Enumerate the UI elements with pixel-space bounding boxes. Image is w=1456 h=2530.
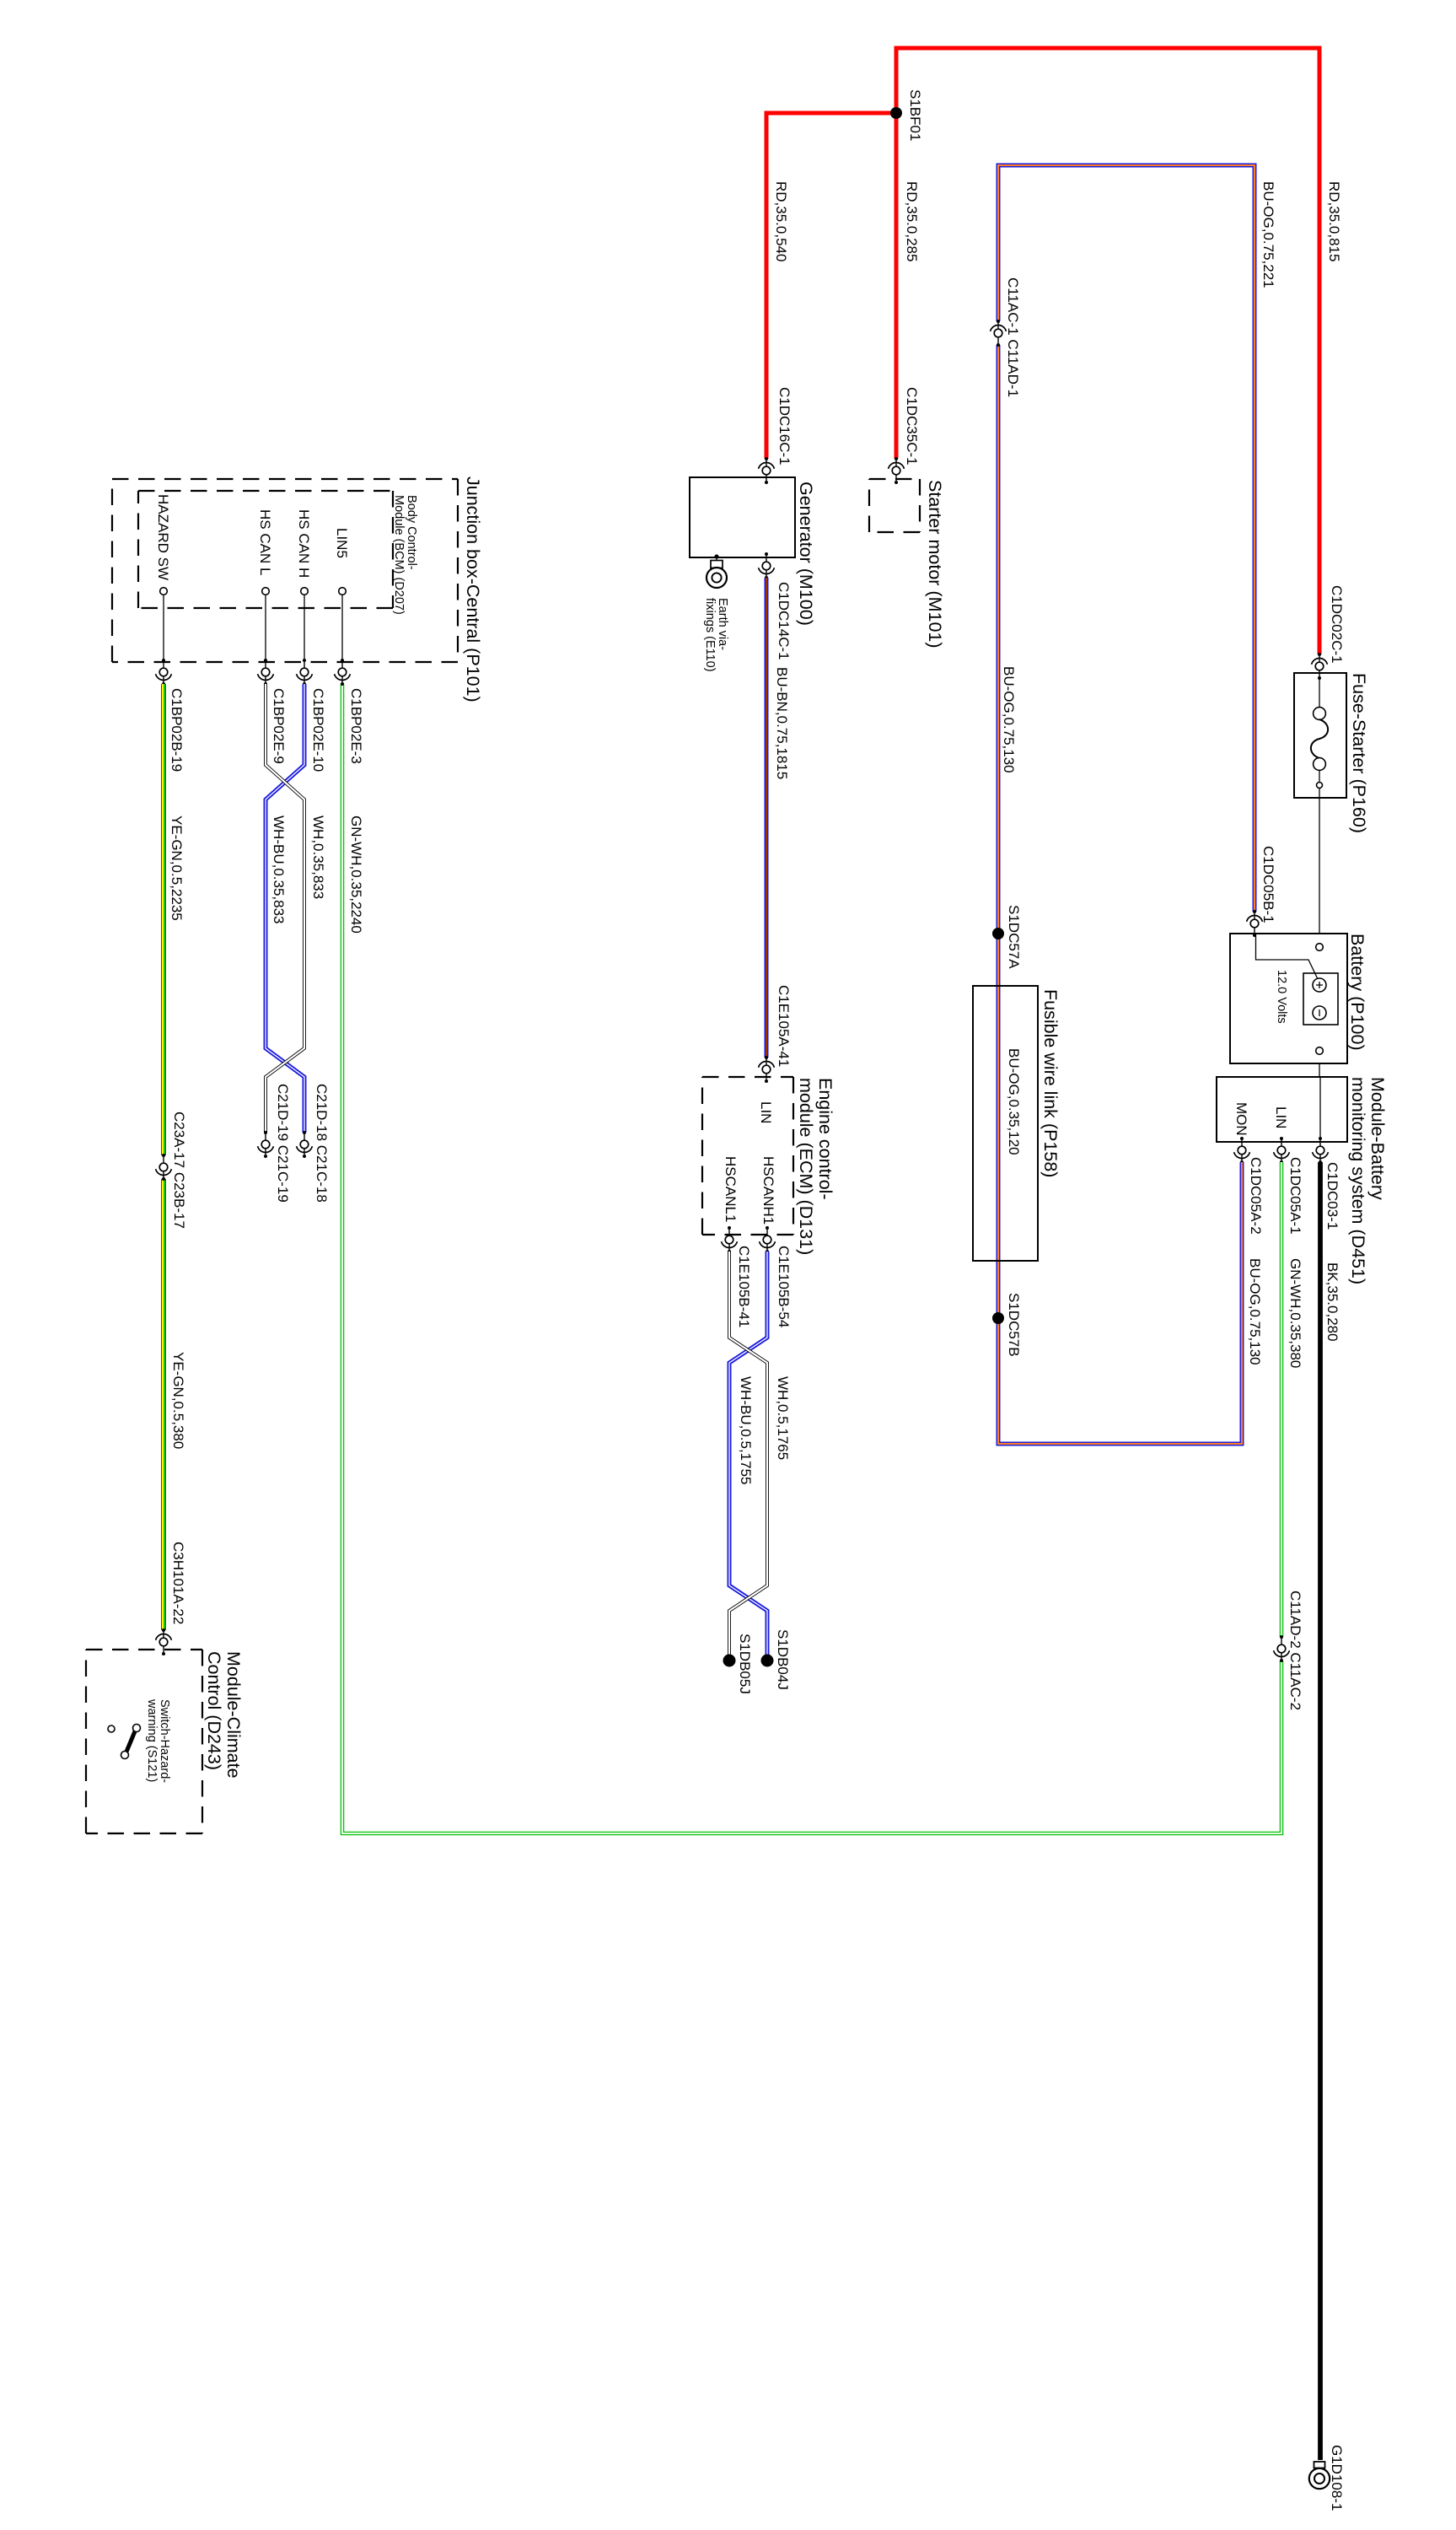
svg-text:BU-OG,0.35,120: BU-OG,0.35,120 [1006, 1048, 1022, 1155]
svg-text:WH-BU,0.35,833: WH-BU,0.35,833 [271, 816, 287, 924]
svg-text:S1DB04J: S1DB04J [775, 1629, 791, 1690]
svg-text:C1DC05B-1: C1DC05B-1 [1260, 846, 1276, 923]
svg-text:C1BP02B-19: C1BP02B-19 [169, 688, 185, 772]
svg-text:C1DC05A-2: C1DC05A-2 [1248, 1157, 1264, 1235]
switch-hazard-warning S121 [108, 1698, 171, 1783]
svg-text:fixings (E110): fixings (E110) [703, 598, 717, 672]
battery P100 [1230, 934, 1367, 1077]
connector C23A-17 C23B-17 [156, 1112, 187, 1229]
svg-text:Module-Battery: Module-Battery [1367, 1077, 1388, 1200]
svg-text:S1DB05J: S1DB05J [737, 1634, 753, 1694]
svg-text:Body Control-: Body Control- [405, 495, 418, 570]
svg-text:YE-GN,0.5,380: YE-GN,0.5,380 [170, 1352, 186, 1449]
node S1DB05J splice [723, 1634, 754, 1694]
junction box-central P101 dashed box [112, 476, 483, 702]
svg-text:G1D108-1: G1D108-1 [1329, 2445, 1345, 2511]
connector C11AC-1 C11AD-1 [991, 277, 1021, 397]
svg-text:RD,35.0,815: RD,35.0,815 [1326, 181, 1342, 261]
pin LIN5 [334, 528, 350, 660]
svg-text:C1DC03-1: C1DC03-1 [1324, 1162, 1340, 1230]
svg-text:BU-OG,0.75,130: BU-OG,0.75,130 [1001, 666, 1017, 773]
svg-text:HSCANH1: HSCANH1 [760, 1156, 776, 1225]
svg-text:C1E105B-41: C1E105B-41 [736, 1246, 752, 1327]
svg-text:C1BP02E-10: C1BP02E-10 [310, 688, 326, 772]
svg-text:Starter motor (M101): Starter motor (M101) [925, 480, 945, 649]
connector C1DC02C-1 [1312, 585, 1345, 680]
svg-text:Module (BCM) (D207): Module (BCM) (D207) [392, 495, 406, 615]
pin C1DC05A-2 [1234, 1137, 1264, 1235]
svg-text:C1DC35C-1: C1DC35C-1 [904, 387, 920, 466]
svg-text:monitoring system (D451): monitoring system (D451) [1348, 1077, 1368, 1284]
module-climate control D243 dashed box [86, 1650, 244, 1833]
wire BU-BN,0.75,1815 generator to ECM [766, 578, 790, 1058]
svg-text:Switch-Hazard-: Switch-Hazard- [158, 1699, 171, 1783]
pin C1DC03-1 [1313, 1137, 1340, 1230]
wire WH-BU,0.5,1755 HSCAN high twisted [729, 1252, 767, 1655]
ground G1D108-1 [1309, 2445, 1345, 2511]
fuse F Fuse-Starter P160 [1294, 673, 1369, 934]
svg-text:C1E105B-54: C1E105B-54 [776, 1246, 792, 1327]
connector C3H101A-22 [156, 1542, 186, 1655]
svg-text:GN-WH,0.35,2240: GN-WH,0.35,2240 [348, 816, 364, 934]
connector C21D-18 C21C-18 [297, 1084, 330, 1203]
connector C1BP02B-19 [156, 659, 185, 772]
svg-text:warning (S121): warning (S121) [145, 1698, 158, 1782]
svg-text:Earth via-: Earth via- [716, 598, 729, 650]
wire BU-OG,0.75 from MON pin via loop to battery C1DC05B-1 [998, 165, 1276, 1444]
svg-text:HAZARD SW: HAZARD SW [155, 494, 171, 580]
connector C1DC16C-1 [759, 387, 792, 484]
svg-text:Generator (M100): Generator (M100) [796, 482, 816, 626]
starter motor M101 dashed box [869, 479, 945, 649]
svg-text:Engine control-: Engine control- [815, 1078, 835, 1200]
svg-text:Fuse-Starter (P160): Fuse-Starter (P160) [1349, 673, 1369, 833]
svg-text:GN-WH,0.35,380: GN-WH,0.35,380 [1287, 1258, 1303, 1368]
generator M100 box [690, 477, 816, 626]
svg-text:Fusible wire link (P158): Fusible wire link (P158) [1040, 989, 1061, 1177]
svg-text:12.0 Volts: 12.0 Volts [1275, 970, 1288, 1024]
wire GN-WH,0.35,380 loop from LIN pin to junction box [342, 684, 1303, 1833]
module-battery monitoring system D451 box [1217, 1077, 1388, 1284]
svg-text:YE-GN,0.5,2235: YE-GN,0.5,2235 [169, 816, 185, 921]
svg-text:C3H101A-22: C3H101A-22 [170, 1542, 186, 1624]
svg-text:S1DC57B: S1DC57B [1006, 1293, 1022, 1357]
svg-text:BU-OG,0.75,221: BU-OG,0.75,221 [1260, 181, 1276, 288]
pin HS CAN L [257, 509, 273, 660]
connector C1DC35C-1 [889, 387, 920, 484]
earth via fixings E110 [703, 554, 729, 671]
pin C1DC05A-1 [1274, 1137, 1303, 1235]
pin HSCANH1 C1E105B-54 [760, 1226, 792, 1327]
wire WH,0.5,1765 HSCAN low twisted [729, 1252, 791, 1655]
svg-text:BK,35.0,280: BK,35.0,280 [1324, 1262, 1340, 1342]
connector C11AD-2 C11AC-2 [1274, 1591, 1303, 1710]
connector C1BP02E-10 [297, 659, 326, 772]
svg-text:MON: MON [1233, 1102, 1249, 1136]
node S1DB04J splice [761, 1629, 792, 1690]
svg-text:HS CAN L: HS CAN L [257, 509, 273, 575]
connector C1BP02E-3 [335, 659, 364, 764]
svg-text:C21D-19 C21C-19: C21D-19 C21C-19 [275, 1084, 291, 1203]
connector C1DC05B-1 [1247, 846, 1276, 937]
wire RD battery feed: C1DC02C-1 to S1BF01 to starter and generator [766, 48, 1319, 654]
pin HS CAN H [296, 509, 312, 660]
svg-text:WH-BU,0.5,1755: WH-BU,0.5,1755 [738, 1376, 754, 1485]
wire YE-GN,0.5,2235 hazard switch line [164, 684, 186, 1630]
svg-text:C11AC-1 C11AD-1: C11AC-1 C11AD-1 [1005, 277, 1021, 397]
svg-text:HSCANL1: HSCANL1 [723, 1156, 739, 1222]
svg-text:Module-Climate: Module-Climate [223, 1651, 244, 1779]
connector C1BP02E-9 [258, 659, 287, 764]
svg-text:S1BF01: S1BF01 [907, 89, 923, 141]
svg-text:Battery (P100): Battery (P100) [1347, 934, 1367, 1051]
wire GN-WH,0.35,2240 from C1BP02E-3 down the long loop [348, 816, 364, 934]
svg-text:Junction box-Central (P101): Junction box-Central (P101) [463, 476, 483, 702]
svg-text:C1BP02E-9: C1BP02E-9 [271, 688, 287, 764]
wire BK,35.0,280 to ground [1320, 1162, 1340, 2460]
svg-text:LIN: LIN [1273, 1106, 1289, 1128]
svg-text:LIN: LIN [758, 1101, 774, 1123]
pin HAZARD SW [155, 494, 171, 660]
node S1DC57A splice [992, 905, 1022, 969]
svg-text:C1DC16C-1: C1DC16C-1 [776, 387, 792, 466]
svg-text:RD,35.0,285: RD,35.0,285 [904, 181, 920, 261]
svg-text:C1DC02C-1: C1DC02C-1 [1329, 585, 1345, 664]
svg-text:BU-OG,0.75,130: BU-OG,0.75,130 [1247, 1258, 1263, 1365]
svg-text:WH,0.5,1765: WH,0.5,1765 [775, 1376, 791, 1460]
node S1DC57B splice [992, 1293, 1022, 1357]
svg-text:WH,0.35,833: WH,0.35,833 [310, 816, 326, 899]
fusible wire link P158 box [973, 986, 1061, 1261]
svg-text:BU-BN,0.75,1815: BU-BN,0.75,1815 [774, 667, 790, 779]
svg-text:LIN5: LIN5 [334, 528, 350, 558]
svg-text:C1BP02E-3: C1BP02E-3 [348, 688, 364, 764]
pin HSCANL1 C1E105B-41 [722, 1226, 752, 1327]
svg-text:HS CAN H: HS CAN H [296, 509, 312, 578]
svg-text:Control (D243): Control (D243) [204, 1651, 224, 1770]
svg-text:S1DC57A: S1DC57A [1006, 905, 1022, 969]
svg-text:RD,35.0,540: RD,35.0,540 [773, 181, 789, 261]
connector C21D-19 C21C-19 [258, 1084, 291, 1203]
wire WH-BU,0.35,833 junction twisted pair [266, 684, 304, 1133]
connector C1DC14C-1 [759, 552, 792, 660]
svg-text:C11AD-2 C11AC-2: C11AD-2 C11AC-2 [1287, 1591, 1303, 1710]
wire WH,0.35,833 junction twisted pair [266, 684, 326, 1133]
svg-text:C1DC14C-1: C1DC14C-1 [776, 582, 792, 660]
node S1BF01 splice [890, 89, 923, 141]
engine control module ECM D131 dashed box [702, 1077, 835, 1255]
svg-text:C1E105A-41: C1E105A-41 [776, 985, 792, 1067]
svg-text:module (ECM) (D131): module (ECM) (D131) [796, 1078, 816, 1255]
svg-text:C23A-17 C23B-17: C23A-17 C23B-17 [171, 1112, 187, 1229]
connector C1E105A-41 [759, 985, 792, 1083]
svg-text:C21D-18 C21C-18: C21D-18 C21C-18 [314, 1084, 330, 1203]
body control module BCM D207 dashed box [138, 491, 418, 615]
svg-text:C1DC05A-1: C1DC05A-1 [1287, 1157, 1303, 1235]
